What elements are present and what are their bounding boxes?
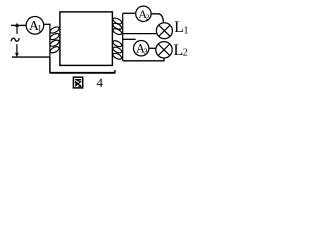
svg-text:4: 4 [97, 75, 104, 90]
svg-text:2: 2 [146, 12, 150, 21]
svg-text:2: 2 [183, 48, 188, 59]
svg-text:1: 1 [37, 24, 42, 34]
svg-text:3: 3 [144, 47, 148, 56]
svg-text:L: L [174, 19, 184, 36]
svg-text:1: 1 [184, 25, 189, 36]
